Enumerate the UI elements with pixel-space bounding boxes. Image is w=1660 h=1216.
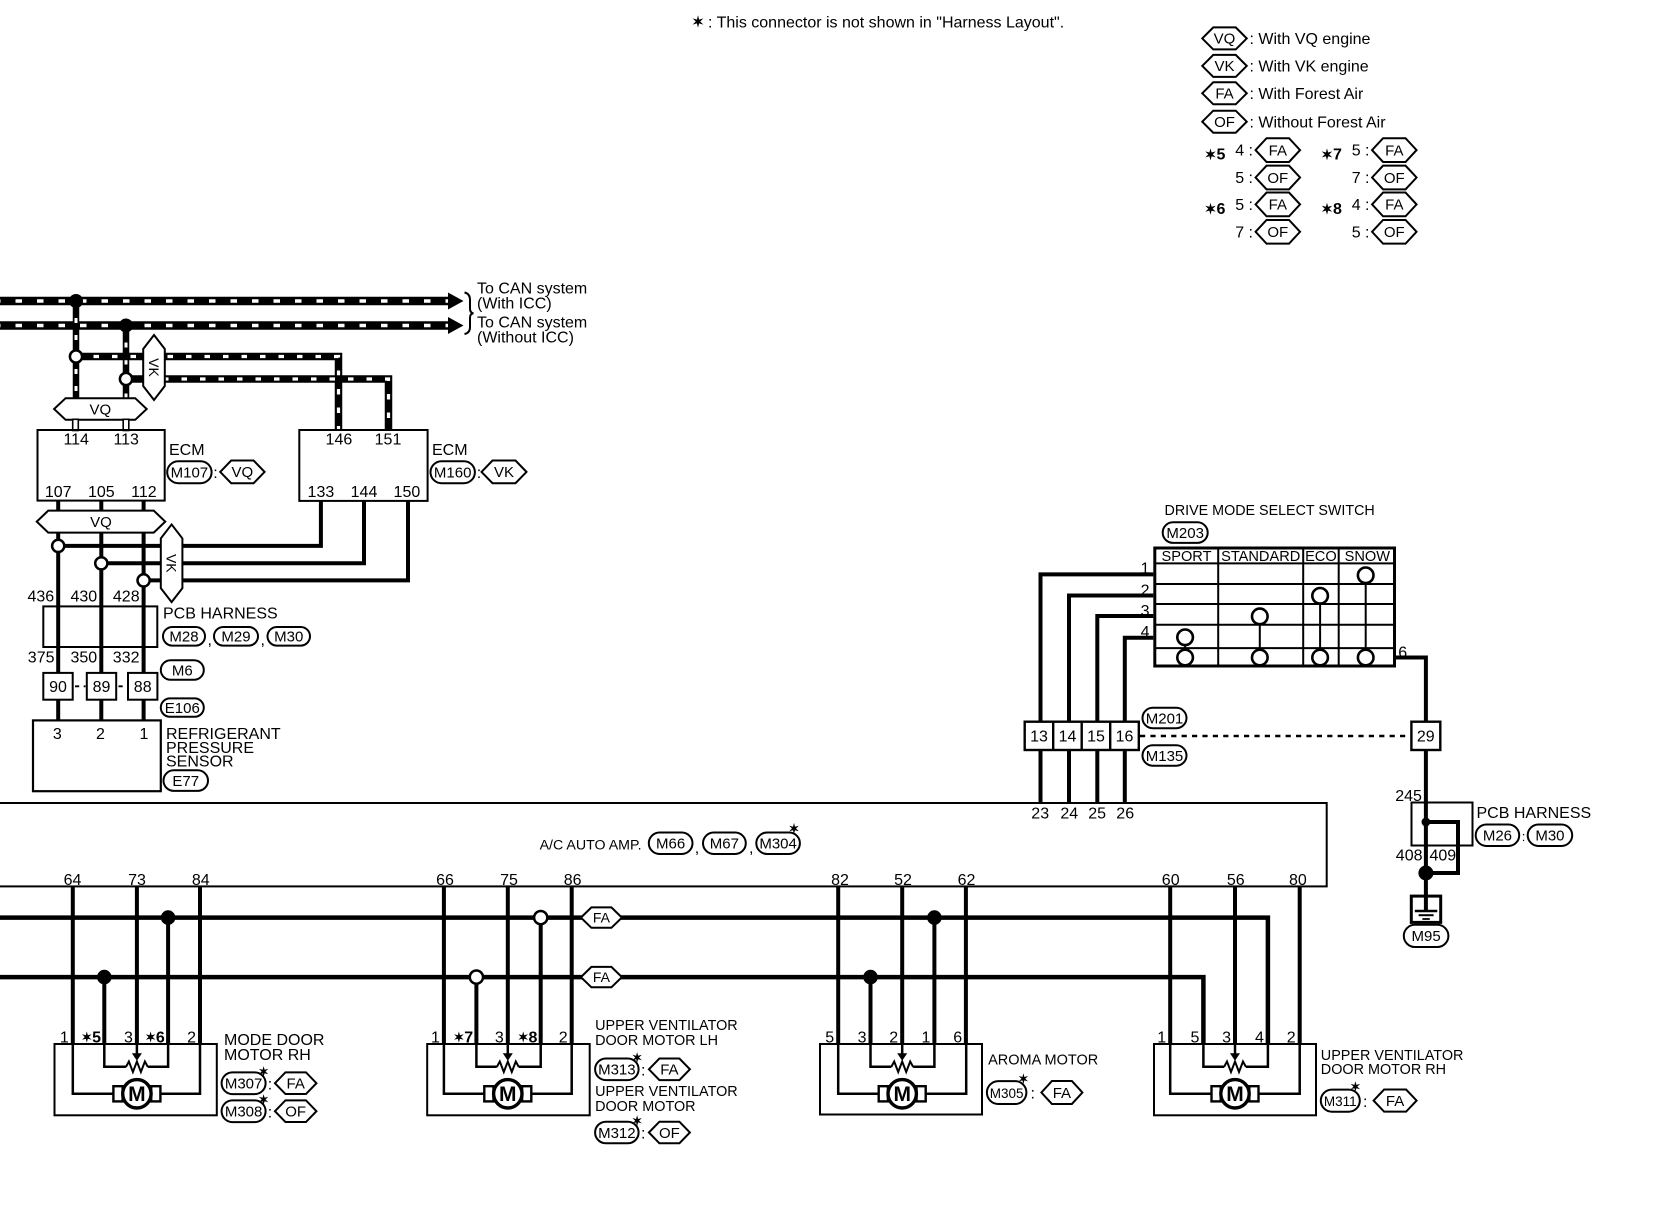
upper ventilator door motor LH potentiometer wiper arrow [503, 1044, 513, 1061]
svg-text:146: 146 [326, 432, 353, 449]
connector M312 [595, 1122, 639, 1144]
legend note *6 pin 5: FA [1235, 193, 1300, 217]
aroma motor motor terminal left [879, 1086, 888, 1101]
svg-text:VK: VK [146, 358, 162, 377]
wire 408 to ground [1424, 822, 1428, 911]
legend note *6 [1205, 201, 1225, 218]
legend note *8 pin 5: OF [1352, 220, 1417, 244]
svg-text:4: 4 [1255, 1029, 1264, 1046]
svg-text:FA: FA [660, 1062, 678, 1079]
svg-text:STANDARD: STANDARD [1221, 549, 1300, 565]
wire switch pin 2 to connector 14 [1069, 596, 1153, 722]
wire ECM M107 pin 112 to VQ tag [142, 501, 146, 513]
svg-text:,: , [695, 840, 699, 857]
svg-text:FA: FA [593, 969, 611, 985]
condition tag FA for M311 [1374, 1090, 1417, 1112]
svg-text:107: 107 [45, 484, 72, 501]
connector terminal 90 [43, 673, 72, 700]
svg-text:114: 114 [63, 432, 89, 449]
svg-text:1: 1 [431, 1029, 440, 1046]
svg-text:8: 8 [1333, 201, 1342, 218]
wire pin 436 drop to PCB harness [56, 532, 60, 721]
svg-text::: : [1522, 829, 1526, 844]
wire bus FA-1 drop to upper ventilator door motor LH pin *8 [539, 918, 543, 1045]
wire bus FA-2 drop to upper ventilator door motor LH pin *7 [474, 977, 478, 1045]
connector E77 [164, 770, 209, 791]
PCB harness pass-through box [43, 606, 157, 647]
svg-text:E106: E106 [165, 700, 200, 717]
svg-text:M201: M201 [1146, 710, 1184, 727]
upper ventilator door motor LH box [427, 1044, 590, 1115]
asterisk for M308 [259, 1094, 268, 1105]
wire amp pin 84 to mode door motor RH pin 2 [198, 886, 202, 1045]
svg-text:29: 29 [1417, 728, 1435, 745]
wire link to ECM M160 pin 133 [58, 501, 321, 546]
svg-text:2: 2 [96, 726, 105, 743]
svg-text:: With VK engine: : With VK engine [1250, 59, 1369, 76]
wire amp pin 66 to upper ventilator door motor LH pin 1 [442, 886, 446, 1045]
connector M30 [268, 627, 311, 646]
svg-text:M: M [1226, 1083, 1244, 1106]
svg-text:375: 375 [28, 650, 55, 667]
wire CAN-H bus (dashed) [0, 297, 449, 306]
wire switch pin 1 to connector 13 [1041, 574, 1154, 721]
svg-text:M305: M305 [990, 1086, 1024, 1101]
svg-text:FA: FA [1269, 142, 1287, 159]
junction circle bus FA-1 / upper ventilator door motor LH [534, 911, 547, 924]
svg-text:VQ: VQ [90, 401, 112, 418]
label REFRIGERANT PRESSURE SENSOR [166, 726, 281, 770]
pin stub ECM M107 pin 113 [123, 419, 129, 430]
label: To CAN system (Without ICC) [477, 315, 587, 347]
svg-text:FA: FA [1053, 1085, 1071, 1102]
ground symbol M95 [1411, 896, 1440, 922]
condition tag VQ below ECM M107 [37, 511, 166, 533]
svg-text::: : [641, 1126, 645, 1143]
svg-text:DOOR MOTOR RH: DOOR MOTOR RH [1321, 1062, 1446, 1078]
wire ECM M107 pin 105 to VQ tag [99, 501, 103, 513]
note: connector not shown in harness layout [693, 15, 1065, 32]
connector E106 [161, 698, 204, 716]
wire amp pin 60 to upper ventilator door motor RH pin 1 [1168, 886, 1172, 1045]
wire switch pin 4 to connector 16 [1125, 638, 1154, 722]
connector M107 [167, 461, 211, 483]
label UPPER VENTILATOR DOOR MOTOR LH [595, 1018, 738, 1049]
junction dot CAN-L [119, 319, 133, 333]
svg-text:5 :: 5 : [1352, 224, 1370, 241]
svg-text:M107: M107 [171, 465, 209, 482]
svg-text:M312: M312 [598, 1125, 636, 1142]
svg-text:M135: M135 [1146, 748, 1184, 765]
upper ventilator door motor LH motor symbol M [494, 1080, 522, 1108]
svg-text:13: 13 [1030, 728, 1048, 745]
drive mode select switch table [1155, 548, 1395, 666]
switch contact SNOW common [1358, 650, 1374, 666]
svg-text:133: 133 [308, 484, 335, 501]
mode door motor RH motor symbol M [123, 1080, 151, 1108]
legend note *5 pin 5: OF [1235, 166, 1300, 190]
svg-text:23: 23 [1031, 806, 1049, 823]
legend symbol VQ [1202, 27, 1370, 49]
mode door motor RH motor terminal left [113, 1086, 122, 1101]
wire terminal 29 to PCB harness pin 245 [1424, 750, 1428, 822]
svg-text:7: 7 [1333, 147, 1342, 164]
svg-text:1: 1 [921, 1029, 930, 1046]
switch contact link SNOW [1365, 575, 1367, 657]
upper ventilator door motor LH pin *8 label [518, 1029, 537, 1046]
svg-text:M6: M6 [172, 662, 193, 679]
svg-text:2: 2 [889, 1029, 898, 1046]
connector M67 [703, 833, 746, 855]
junction circle CAN-L branch [120, 373, 132, 385]
svg-text:2: 2 [559, 1029, 568, 1046]
svg-text:5 :: 5 : [1235, 197, 1253, 214]
arrow CAN-L to CAN system (Without ICC) [448, 317, 464, 334]
svg-text:VQ: VQ [90, 514, 112, 531]
svg-text::: : [477, 465, 481, 482]
connector M304 [756, 833, 800, 855]
svg-text:: With Forest Air: : With Forest Air [1250, 86, 1364, 103]
connector M30 right [1528, 825, 1573, 847]
switch contact STANDARD common [1252, 650, 1268, 666]
wire amp pin 86 to upper ventilator door motor LH pin 2 [570, 886, 574, 1045]
svg-text:5 :: 5 : [1352, 143, 1370, 160]
condition tag VQ for M107 [220, 461, 264, 484]
aroma motor potentiometer wiper arrow [897, 1044, 907, 1061]
switch contact ECO common [1312, 650, 1328, 666]
wire amp pin 75 to upper ventilator door motor LH pin 3 [506, 886, 510, 1045]
svg-text::: : [1363, 1094, 1367, 1111]
svg-text:PCB HARNESS: PCB HARNESS [163, 606, 278, 623]
wire amp pin 80 to upper ventilator door motor RH pin 2 [1298, 886, 1302, 1045]
svg-text:OF: OF [1267, 170, 1288, 187]
svg-text:FA: FA [1269, 197, 1287, 214]
svg-text:5: 5 [1190, 1029, 1199, 1046]
mode door motor RH motor supply wire right [160, 1044, 200, 1094]
A/C auto amp box [0, 803, 1327, 886]
upper ventilator door motor LH pin *7 label [454, 1029, 473, 1046]
mode door motor RH box [55, 1044, 217, 1115]
svg-text:FA: FA [1215, 86, 1233, 103]
wire amp pin 62 to aroma motor pin 6 [964, 886, 968, 1045]
svg-text:E77: E77 [172, 773, 199, 790]
svg-text:4 :: 4 : [1235, 143, 1253, 160]
svg-text:112: 112 [131, 484, 157, 501]
svg-text:M29: M29 [221, 629, 250, 646]
condition tag FA for M305 [1041, 1081, 1082, 1104]
upper ventilator door motor LH motor terminal right [522, 1086, 531, 1101]
junction circle CAN-H branch [70, 350, 82, 362]
wire switch pin 6 to terminal 29 [1395, 658, 1426, 722]
legend note *7 pin 5: FA [1352, 138, 1417, 162]
svg-text:M: M [128, 1083, 146, 1106]
svg-text:M67: M67 [710, 836, 739, 853]
svg-text:M160: M160 [434, 465, 472, 482]
PCB harness box right [1412, 803, 1473, 846]
upper ventilator door motor LH motor terminal left [484, 1086, 493, 1101]
svg-text:6: 6 [1217, 201, 1226, 218]
svg-text:26: 26 [1116, 806, 1134, 823]
svg-text:5: 5 [825, 1029, 834, 1046]
svg-text:5 :: 5 : [1235, 170, 1253, 187]
upper ventilator door motor RH potentiometer wiper arrow [1230, 1044, 1240, 1061]
upper ventilator door motor RH resistor left leg wire [1203, 1044, 1224, 1067]
connector M26 [1476, 825, 1520, 847]
switch contact SPORT row 4 [1177, 630, 1193, 646]
junction circle pin 428 / 150 [138, 574, 150, 586]
condition tag FA for M313 [649, 1059, 690, 1081]
svg-text:(Without ICC): (Without ICC) [477, 330, 574, 347]
svg-text:105: 105 [88, 484, 115, 501]
wire ECM M107 pin 107 to VQ tag [56, 501, 60, 513]
svg-text:3: 3 [124, 1029, 133, 1046]
svg-text:VK: VK [164, 554, 180, 573]
legend note *7 [1322, 147, 1342, 164]
svg-text:144: 144 [351, 484, 378, 501]
connector M307 [222, 1072, 266, 1094]
wire bus FA-2 drop to aroma motor pin 3 [869, 977, 873, 1045]
wire amp pin 64 to mode door motor RH pin 1 [71, 886, 75, 1045]
svg-text:FA: FA [287, 1076, 305, 1093]
svg-text:M308: M308 [225, 1104, 263, 1121]
legend note *7 pin 7: OF [1352, 166, 1417, 190]
aroma motor motor supply wire left [838, 1044, 879, 1094]
wire connector 15 to A/C auto amp pin 25 [1095, 750, 1099, 803]
connector M29 [214, 627, 258, 646]
svg-text:M30: M30 [1535, 828, 1564, 845]
junction circle pin 430 / 144 [95, 557, 107, 569]
svg-text:90: 90 [49, 679, 67, 696]
dashed connector link 16 to 29 [1140, 735, 1411, 737]
svg-text:16: 16 [1116, 728, 1134, 745]
svg-text:M304: M304 [759, 836, 797, 853]
wire connector 13 to A/C auto amp pin 23 [1039, 750, 1043, 803]
wire amp pin 56 to upper ventilator door motor RH pin 3 [1233, 886, 1237, 1045]
mode door motor RH potentiometer wiper arrow [132, 1044, 142, 1061]
legend note *8 pin 4: FA [1352, 193, 1417, 217]
connector M201 [1143, 708, 1187, 728]
switch contact link SPORT [1184, 637, 1186, 657]
svg-text::: : [268, 1077, 272, 1094]
label MODE DOOR MOTOR RH [224, 1032, 324, 1064]
wire switch pin 3 to connector 15 [1097, 616, 1153, 722]
svg-text:DOOR MOTOR: DOOR MOTOR [595, 1099, 695, 1115]
svg-text:M26: M26 [1483, 828, 1512, 845]
wire amp pin 73 to mode door motor RH pin 3 [135, 886, 139, 1045]
svg-text:430: 430 [70, 589, 97, 606]
svg-text:VK: VK [1214, 58, 1234, 75]
mode door motor RH pin *6 label [146, 1029, 165, 1046]
connector M6 [161, 660, 204, 680]
svg-text:VQ: VQ [1214, 31, 1236, 48]
switch contact SNOW row 1 [1358, 568, 1374, 584]
wire amp pin 82 to aroma motor pin 5 [836, 886, 840, 1045]
svg-text:8: 8 [529, 1029, 538, 1046]
connector M305 [987, 1081, 1027, 1104]
svg-text:MOTOR RH: MOTOR RH [224, 1047, 311, 1064]
upper ventilator door motor RH potentiometer resistor [1224, 1062, 1246, 1073]
legend symbol VK [1202, 55, 1369, 77]
legend symbol OF [1202, 111, 1386, 133]
svg-text:428: 428 [113, 589, 140, 606]
legend note *8 [1322, 201, 1342, 218]
aroma motor potentiometer resistor [891, 1062, 913, 1073]
svg-text:ECM: ECM [432, 442, 468, 459]
svg-text:14: 14 [1059, 728, 1077, 745]
svg-text:M95: M95 [1412, 928, 1441, 945]
svg-text:113: 113 [113, 432, 139, 449]
wire branch 409 to ground [1426, 822, 1458, 873]
connector M160 [431, 461, 475, 483]
svg-text:SENSOR: SENSOR [166, 754, 234, 771]
upper ventilator door motor LH potentiometer resistor [497, 1062, 519, 1073]
connector M28 [163, 627, 205, 646]
label: To CAN system (With ICC) [477, 281, 587, 313]
asterisk for M307 [259, 1066, 268, 1077]
svg-text:M203: M203 [1166, 525, 1204, 542]
wire CAN-L branch to ECM M160 pin 151 (dashed) [126, 379, 389, 430]
upper ventilator door motor RH resistor right leg wire [1246, 1044, 1268, 1067]
svg-text:FA: FA [1385, 142, 1403, 159]
legend note *6 pin 7: OF [1235, 220, 1300, 244]
wire connector 14 to A/C auto amp pin 24 [1067, 750, 1071, 803]
svg-text:409: 409 [1430, 847, 1457, 864]
svg-text:5: 5 [92, 1029, 101, 1046]
svg-text:: Without Forest Air: : Without Forest Air [1250, 114, 1387, 131]
junction dot bus FA-2 / aroma motor [863, 970, 878, 985]
wire amp pin 52 to aroma motor pin 2 [900, 886, 904, 1045]
pin stub ECM M107 pin 114 [73, 419, 79, 430]
upper ventilator door motor RH motor terminal left [1212, 1086, 1221, 1101]
svg-text:,: , [749, 840, 753, 857]
svg-text:4 :: 4 : [1352, 197, 1370, 214]
svg-text:ECO: ECO [1305, 549, 1337, 565]
svg-text:M: M [499, 1083, 517, 1106]
svg-text:SNOW: SNOW [1345, 549, 1391, 565]
svg-text:3: 3 [53, 726, 62, 743]
junction circle pin 436 / 133 [52, 540, 64, 552]
upper ventilator door motor RH motor supply wire right [1259, 1044, 1300, 1094]
svg-text:VQ: VQ [232, 464, 254, 481]
svg-text:AROMA MOTOR: AROMA MOTOR [988, 1053, 1098, 1069]
asterisk for M311 [1351, 1081, 1360, 1092]
upper ventilator door motor LH motor supply wire left [444, 1044, 484, 1094]
aroma motor motor symbol M [888, 1080, 916, 1108]
terminal 29 box [1411, 722, 1440, 750]
svg-text:: With VQ engine: : With VQ engine [1250, 31, 1371, 48]
junction dot CAN-H [69, 294, 83, 308]
svg-text:6: 6 [156, 1029, 165, 1046]
svg-text:25: 25 [1088, 806, 1106, 823]
wire bus FA-1 drop to mode door motor RH pin *6 [166, 918, 170, 1045]
svg-text:89: 89 [93, 679, 111, 696]
connector strip terminals 13 14 15 16 [1025, 722, 1139, 750]
asterisk for M304 [789, 823, 799, 834]
wire link to ECM M160 pin 150 [144, 501, 408, 581]
wire pin 430 drop to PCB harness [99, 532, 103, 721]
condition tag FA on bus FA-2 [581, 967, 622, 987]
aroma motor resistor left leg wire [871, 1044, 892, 1067]
svg-text:151: 151 [375, 432, 402, 449]
svg-text:6: 6 [953, 1029, 962, 1046]
svg-text:OF: OF [285, 1104, 306, 1121]
svg-text:OF: OF [1267, 224, 1288, 241]
svg-text:436: 436 [27, 589, 54, 606]
legend symbol FA [1202, 82, 1364, 104]
ECM M160 box [299, 430, 427, 501]
svg-text:3: 3 [1222, 1029, 1231, 1046]
wire bus FA-1 drop to aroma motor pin 1 [932, 918, 936, 1045]
switch contact ECO row 2 [1312, 588, 1328, 604]
svg-text:1: 1 [1157, 1029, 1166, 1046]
condition tag VK (vertical) on CAN branches [143, 335, 165, 400]
switch contact SPORT common [1177, 650, 1193, 666]
condition tag VK for M160 [482, 461, 527, 484]
svg-text:M66: M66 [656, 836, 685, 853]
aroma motor motor terminal right [917, 1086, 926, 1101]
svg-text:2: 2 [1287, 1029, 1296, 1046]
svg-text:FA: FA [1386, 1093, 1404, 1110]
wire bus FA-2 drop to mode door motor RH pin *5 [102, 977, 106, 1045]
legend note *5 pin 4: FA [1235, 138, 1300, 162]
connector M311 [1321, 1090, 1360, 1112]
refrigerant pressure sensor box [33, 720, 161, 791]
upper ventilator door motor RH motor terminal right [1249, 1086, 1258, 1101]
svg-text:M28: M28 [169, 629, 198, 646]
svg-text:150: 150 [394, 484, 421, 501]
svg-text:3: 3 [858, 1029, 867, 1046]
svg-text:UPPER VENTILATOR: UPPER VENTILATOR [595, 1018, 738, 1034]
mode door motor RH resistor right leg wire [148, 1044, 168, 1067]
svg-text:DRIVE MODE SELECT SWITCH: DRIVE MODE SELECT SWITCH [1165, 503, 1375, 519]
svg-text:1: 1 [60, 1029, 69, 1046]
connector M203 [1163, 522, 1208, 543]
svg-text:24: 24 [1060, 806, 1078, 823]
wire drop from CAN-H to ECM M107 pin 114 (dashed) [73, 301, 80, 399]
aroma motor resistor right leg wire [913, 1044, 934, 1067]
switch contact STANDARD row 3 [1252, 609, 1268, 625]
wire drop from CAN-L to ECM M107 pin 113 (dashed) [123, 326, 130, 400]
switch contact link ECO [1319, 596, 1321, 658]
svg-text:A/C AUTO AMP.: A/C AUTO AMP. [540, 838, 642, 854]
svg-text:5: 5 [1217, 147, 1226, 164]
junction dot ground [1418, 866, 1433, 881]
connector terminal 89 [87, 673, 116, 700]
legend note *5 [1205, 147, 1225, 164]
brace for CAN system labels [465, 293, 474, 335]
svg-text:M30: M30 [274, 629, 303, 646]
arrow CAN-H to CAN system (With ICC) [448, 293, 464, 310]
svg-text::: : [641, 1063, 645, 1080]
svg-text:1: 1 [139, 726, 148, 743]
svg-text:2: 2 [187, 1029, 196, 1046]
svg-text:OF: OF [1214, 114, 1235, 131]
mode door motor RH pin *5 label [82, 1029, 101, 1046]
aroma motor box [820, 1044, 982, 1115]
switch contact link STANDARD [1259, 616, 1261, 657]
wire pin 428 drop to PCB harness [142, 532, 146, 721]
dashed link 89-88 [119, 685, 128, 687]
wire bus FA-1 from amp area to upper ventilator door motor RH pin 4 [0, 918, 1268, 1045]
svg-text:M: M [893, 1083, 911, 1106]
asterisk for M305 [1019, 1073, 1028, 1084]
mode door motor RH potentiometer resistor [126, 1062, 148, 1073]
connector terminal 88 [128, 673, 157, 700]
svg-text:M307: M307 [225, 1076, 263, 1093]
svg-text:332: 332 [113, 650, 140, 667]
wire CAN-L bus (dashed) [0, 321, 449, 330]
junction dot pin 245 [1422, 818, 1431, 827]
